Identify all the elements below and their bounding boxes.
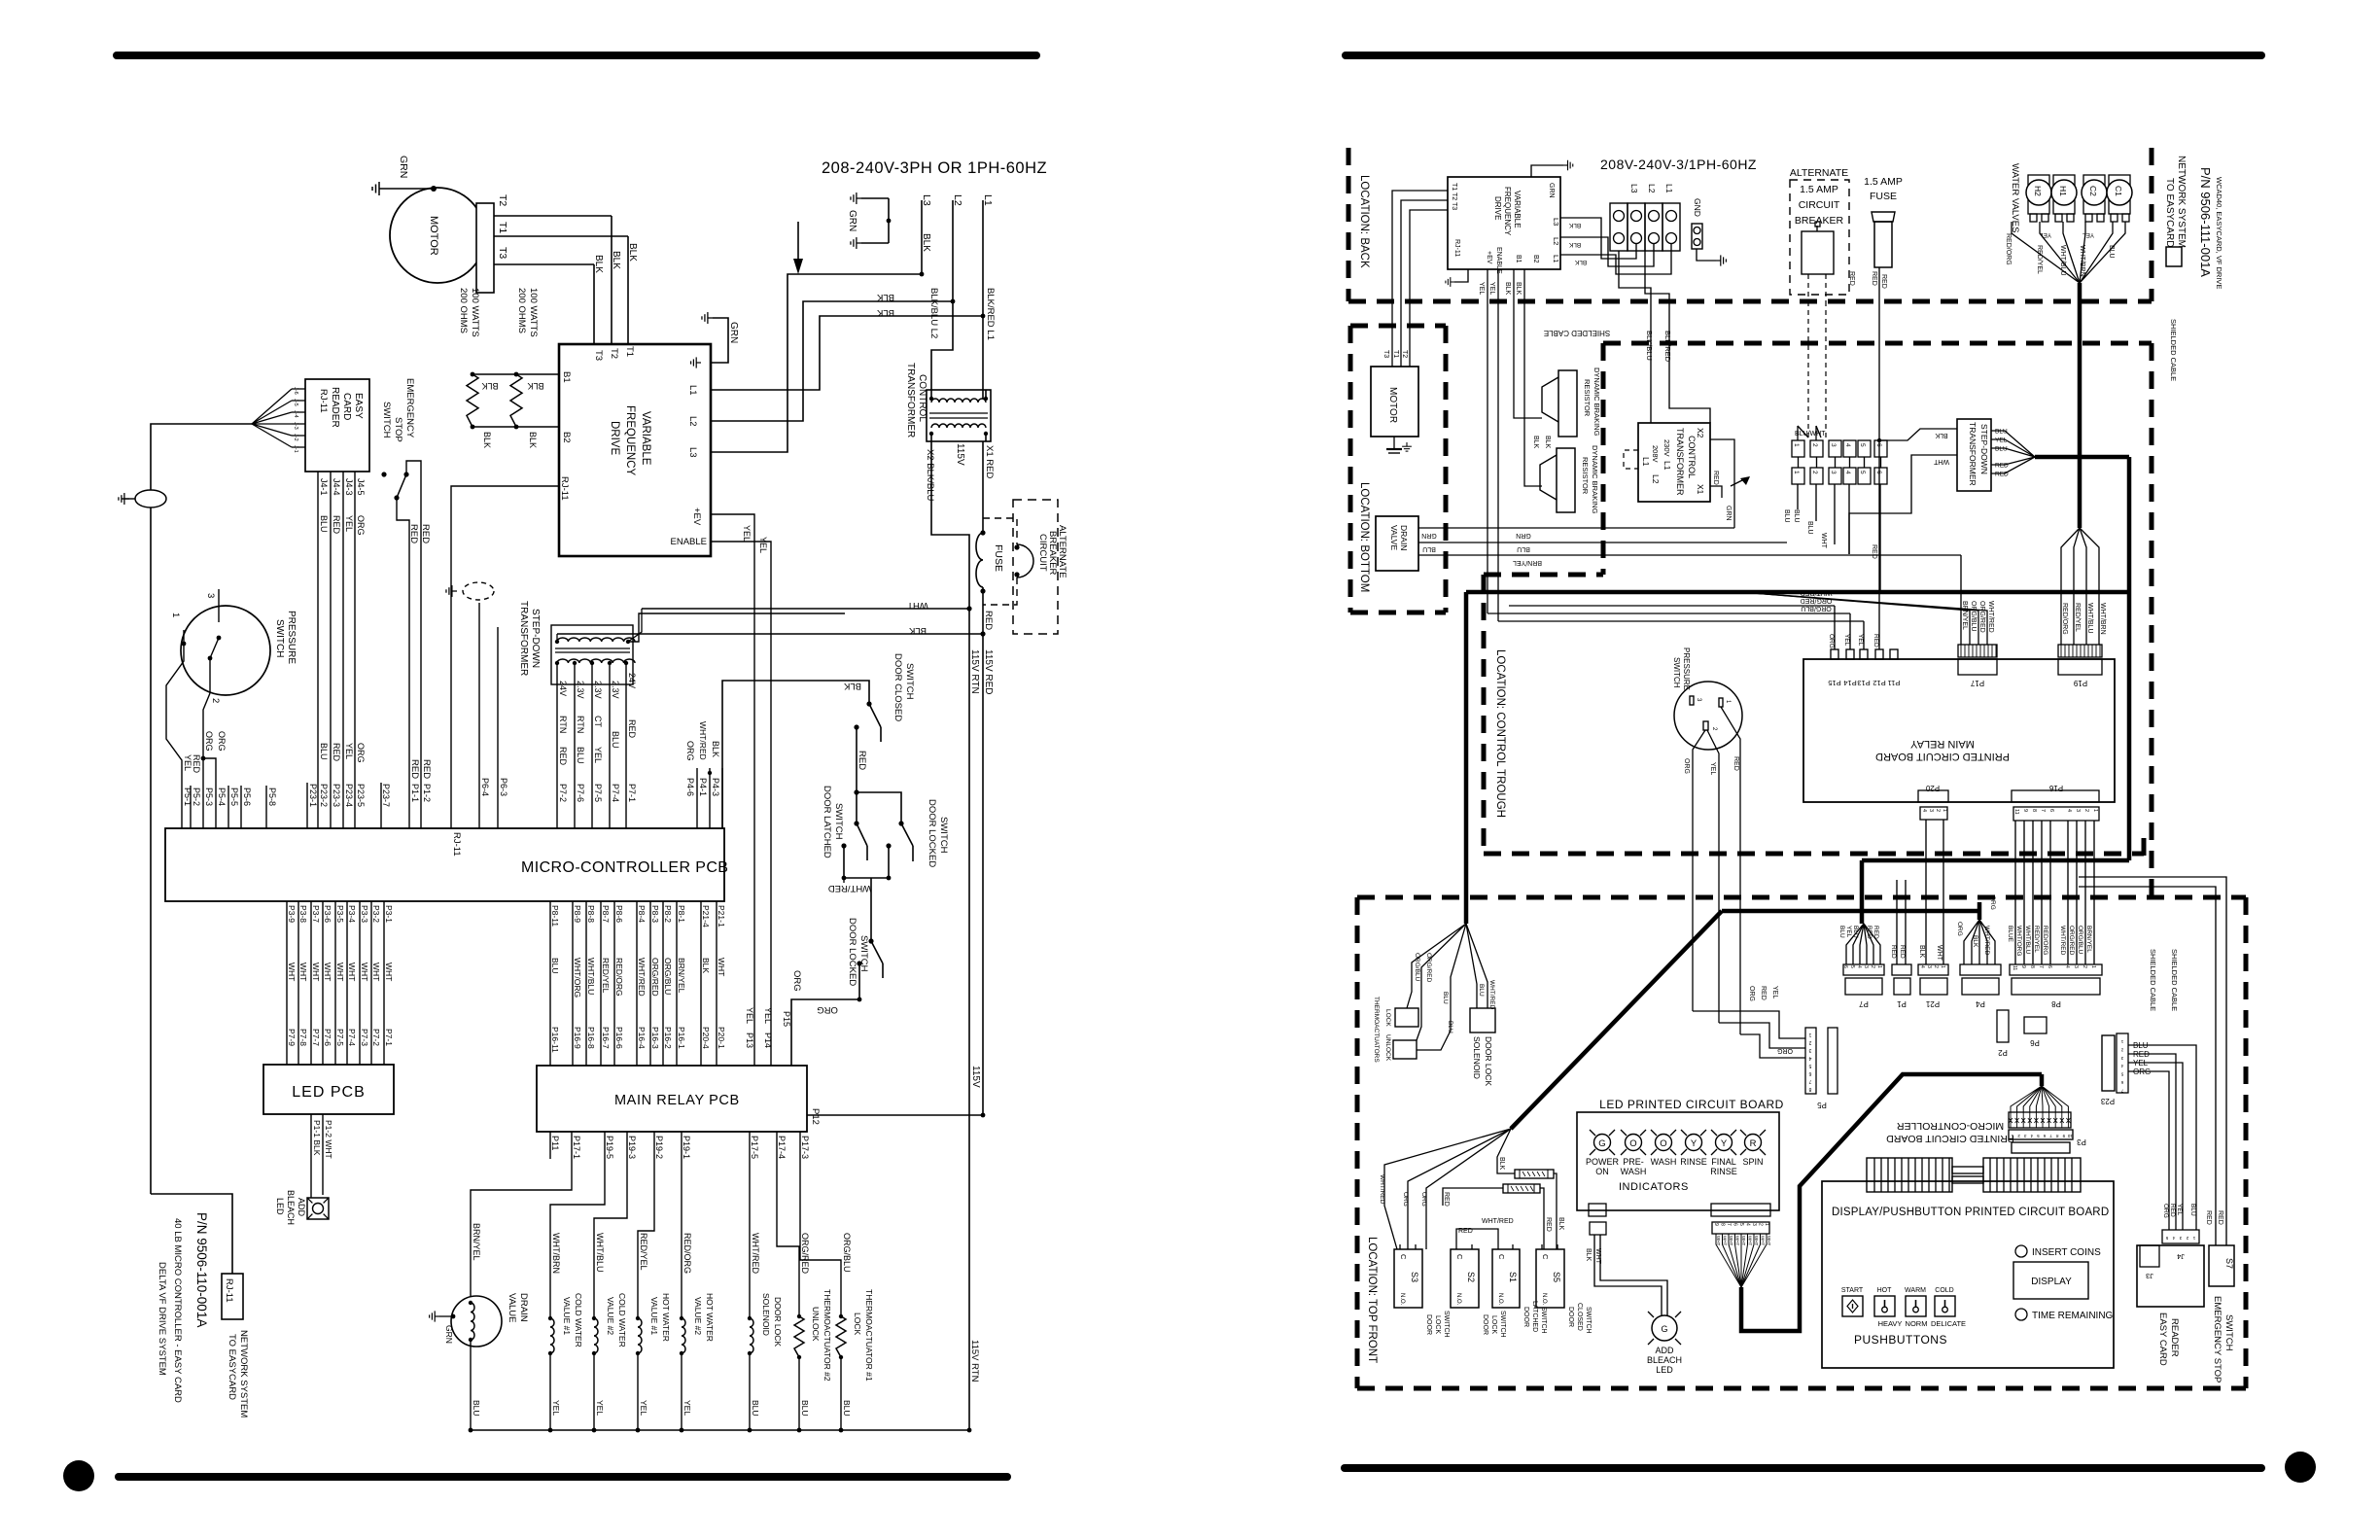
svg-text:SWITCH: SWITCH [2223, 1314, 2234, 1351]
svg-text:BLU: BLU [319, 743, 329, 760]
wire motor T1 to VFD [627, 236, 629, 344]
drain valve DV circle with coil [451, 1296, 502, 1347]
svg-text:BLK: BLK [921, 233, 931, 252]
svg-text:P3-2: P3-2 [371, 905, 381, 923]
svg-text:P23-1: P23-1 [308, 784, 318, 807]
braking resistor R-B2 [510, 374, 522, 427]
svg-text:P5-6: P5-6 [242, 787, 252, 806]
svg-text:LOCK: LOCK [1434, 1315, 1441, 1334]
display/pushbutton PCB box [1822, 1181, 2114, 1368]
svg-text:2: 2 [1870, 965, 1875, 968]
svg-text:RED: RED [1899, 945, 1906, 959]
svg-text:8: 8 [2031, 809, 2037, 812]
svg-text:YEL: YEL [1995, 437, 2008, 444]
valve connector P19R hatch [2058, 645, 2102, 657]
P21R connector [1918, 964, 1948, 975]
svg-text:5: 5 [1859, 471, 1866, 474]
breaker leads dashed down [1807, 274, 1809, 301]
motor lead T3 [494, 263, 594, 265]
svg-text:BLU: BLU [576, 747, 585, 764]
svg-text:UNLOCK: UNLOCK [811, 1307, 821, 1342]
svg-text:P8-6: P8-6 [614, 905, 624, 923]
svg-text:P11: P11 [1888, 679, 1901, 687]
svg-text:EASY: EASY [353, 393, 364, 419]
svg-text:3: 3 [1928, 809, 1934, 812]
svg-text:BLU: BLU [1478, 984, 1485, 997]
motor M1 circle [390, 188, 485, 283]
svg-text:BLK: BLK [527, 381, 543, 391]
svg-text:WHT: WHT [907, 600, 928, 611]
resistor bottom rail to B2 [472, 426, 560, 428]
RJ-11 wire from VFD [451, 486, 559, 828]
S2 S1 wires [1456, 1229, 1498, 1244]
svg-text:SOLENOID: SOLENOID [1472, 1036, 1482, 1079]
svg-text:EASY CARD: EASY CARD [2157, 1312, 2168, 1366]
svg-text:TRANSFORMER: TRANSFORMER [1968, 422, 1977, 486]
fuse F1 on X1 RED [982, 441, 984, 533]
svg-text:P5-3: P5-3 [204, 787, 214, 806]
svg-text:YEL: YEL [595, 1400, 605, 1416]
svg-text:C1: C1 [2114, 186, 2123, 196]
binder dot bottom-right [2285, 1452, 2316, 1483]
svg-text:SWITCH: SWITCH [1540, 1307, 1547, 1334]
svg-text:BLU: BLU [1838, 926, 1845, 938]
svg-text:P16-7: P16-7 [601, 1027, 611, 1049]
svg-text:L2: L2 [1651, 474, 1661, 484]
thick cable fan to P7R [1846, 924, 1864, 964]
svg-text:RED: RED [857, 751, 867, 770]
svg-text:BLU: BLU [1783, 509, 1790, 523]
water valve H2 [2028, 175, 2049, 214]
svg-text:3: 3 [1830, 471, 1837, 474]
primary wires to step-down [556, 634, 558, 642]
J4 wires from card reader to P23 [317, 472, 319, 828]
breaker dashed leads [983, 518, 1017, 544]
svg-text:ORG/BLU: ORG/BLU [1414, 953, 1420, 982]
svg-text:P16-9: P16-9 [573, 1027, 582, 1049]
svg-text:208V: 208V [1651, 445, 1660, 463]
svg-text:2: 2 [210, 698, 221, 703]
fan from thick cable to locks [1407, 924, 1466, 1008]
svg-text:4: 4 [1808, 1055, 1811, 1061]
switch wire fan from thick diagonal [1384, 1129, 1511, 1249]
svg-text:MAIN RELAY: MAIN RELAY [1909, 738, 1974, 750]
dynamic braking resistor DBR2 [1557, 448, 1575, 512]
svg-text:P16-8: P16-8 [586, 1027, 596, 1049]
svg-text:LED: LED [1656, 1365, 1673, 1375]
svg-text:RESISTOR: RESISTOR [1583, 379, 1592, 417]
thermoactuator unlock box [1393, 1040, 1417, 1059]
output P19-5 to cold water valve 1 [550, 1132, 605, 1318]
svg-text:BLK: BLK [1544, 436, 1551, 449]
svg-text:BLK: BLK [1515, 282, 1522, 296]
svg-text:YEL: YEL [682, 1400, 692, 1416]
svg-text:BREAKER: BREAKER [1047, 531, 1058, 576]
svg-text:P3-7: P3-7 [311, 905, 321, 923]
svg-text:P5-2: P5-2 [192, 787, 201, 806]
svg-text:READER: READER [330, 387, 340, 428]
svg-text:C: C [1541, 1254, 1550, 1260]
svg-text:LOCK: LOCK [853, 1312, 862, 1335]
svg-text:9: 9 [2020, 965, 2026, 968]
svg-text:YEL: YEL [2176, 1204, 2183, 1216]
svg-text:RINSE: RINSE [1710, 1167, 1737, 1176]
P4R fan and connector [1964, 920, 1979, 964]
svg-text:RED/ORG: RED/ORG [2005, 233, 2012, 265]
svg-text:DYNAMIC BRAKING: DYNAMIC BRAKING [1591, 445, 1599, 514]
control trough dashed border [1601, 343, 1606, 575]
svg-text:WHT: WHT [1716, 1236, 1721, 1245]
svg-text:10: 10 [2067, 1134, 2073, 1138]
svg-text:SWITCH: SWITCH [1672, 657, 1681, 688]
door closed switch S-DC [866, 701, 871, 706]
svg-text:P21: P21 [1925, 999, 1940, 1008]
svg-text:EMERGENCY STOP: EMERGENCY STOP [2212, 1296, 2222, 1382]
svg-text:RED: RED [1732, 756, 1739, 771]
svg-text:1: 1 [2092, 809, 2098, 812]
emergency stop switch S-ES [381, 472, 386, 476]
svg-text:MAIN RELAY PCB: MAIN RELAY PCB [614, 1093, 740, 1108]
svg-text:YEL: YEL [1843, 634, 1850, 647]
transformer X2 GRN wire [1710, 439, 1734, 528]
terminal strip links [1798, 457, 1800, 468]
svg-text:LOCK: LOCK [1490, 1315, 1497, 1334]
svg-text:O: O [1629, 1138, 1636, 1149]
svg-text:RED: RED [409, 759, 420, 779]
pad feed horizontals [1509, 605, 1835, 607]
svg-text:T1: T1 [624, 346, 635, 357]
breaker body [1802, 231, 1834, 274]
svg-text:CARD: CARD [341, 393, 352, 420]
svg-text:CONTROL: CONTROL [1687, 436, 1697, 478]
svg-text:P20-4: P20-4 [701, 1027, 711, 1049]
svg-text:P12: P12 [810, 1108, 821, 1125]
svg-text:WHT: WHT [384, 962, 394, 981]
svg-text:P16: P16 [2048, 784, 2063, 792]
svg-text:YEL: YEL [763, 1007, 773, 1024]
svg-text:P2: P2 [1998, 1048, 2008, 1057]
wire VFD L3 to supply [711, 274, 922, 452]
svg-text:STEP-DOWN: STEP-DOWN [1979, 424, 1989, 474]
svg-text:N.O.: N.O. [1541, 1293, 1547, 1306]
output P17-5 to door lock solenoid [749, 1132, 751, 1318]
svg-text:WASH: WASH [1651, 1157, 1677, 1167]
motor lead T1 [494, 235, 628, 237]
svg-text:ORG/BLU: ORG/BLU [1970, 601, 1977, 632]
svg-text:RED/ORG: RED/ORG [2042, 926, 2048, 955]
svg-text:ADD: ADD [1655, 1346, 1674, 1355]
svg-text:GRN: GRN [398, 156, 409, 178]
terminal strip row lower 1-6 [1792, 468, 1804, 484]
svg-text:CIRCUIT: CIRCUIT [1037, 534, 1048, 572]
shield ferrite symbol on network wire [135, 490, 166, 507]
svg-text:MICRO-CONTROLLER: MICRO-CONTROLLER [1896, 1120, 2004, 1132]
transformer dashed stub [1624, 450, 1638, 469]
svg-text:PRESSURE: PRESSURE [1682, 647, 1691, 690]
svg-text:3: 3 [1751, 1223, 1757, 1226]
svg-text:P23-3: P23-3 [332, 784, 341, 807]
svg-text:BLEACH: BLEACH [1647, 1355, 1682, 1365]
svg-text:SWITCH: SWITCH [1443, 1311, 1450, 1338]
step-down right fan BLU YEL BLU RED RED [1991, 431, 2035, 457]
svg-text:TRANSFORMER: TRANSFORMER [1675, 428, 1685, 496]
LED pcb right connector [1711, 1204, 1770, 1216]
emergency stop switch S7 [2209, 1245, 2234, 1286]
svg-text:PUSHBUTTONS: PUSHBUTTONS [1854, 1333, 1947, 1347]
svg-text:P4-6: P4-6 [685, 778, 695, 796]
svg-text:J4-3: J4-3 [344, 478, 354, 496]
svg-text:P7-6: P7-6 [576, 784, 585, 802]
svg-text:1: 1 [2090, 965, 2096, 968]
svg-text:BLK: BLK [593, 255, 604, 273]
svg-text:100 WATTS: 100 WATTS [528, 288, 539, 337]
svg-text:FUSE: FUSE [993, 544, 1004, 572]
wires YEL YEL BLK BLK from VFD bottom [1487, 269, 1488, 613]
svg-text:ORG/RED: ORG/RED [800, 1233, 810, 1275]
page top rule right sheet [1346, 52, 2261, 59]
svg-text:6: 6 [2048, 809, 2054, 812]
svg-text:WHT/RED: WHT/RED [698, 721, 708, 760]
svg-text:BLU: BLU [1422, 545, 1436, 552]
svg-text:BLU: BLU [1995, 446, 2008, 453]
svg-text:BLU: BLU [1442, 992, 1449, 1004]
add bleach LED DS1 [307, 1198, 329, 1219]
svg-text:DRIVE: DRIVE [1493, 196, 1502, 220]
svg-text:2: 2 [1935, 809, 1941, 812]
svg-text:YEL: YEL [1845, 926, 1852, 938]
secondary tap wires to P7 [556, 663, 558, 828]
svg-text:START: START [1841, 1287, 1864, 1294]
svg-text:THERMOACTUATOR #1: THERMOACTUATOR #1 [864, 1289, 874, 1382]
wire motor T2 to VFD [611, 216, 612, 344]
water valve C2 [2083, 175, 2105, 214]
svg-text:RJ-11: RJ-11 [559, 476, 570, 501]
micro to main relay wire columns P8/P21 [549, 901, 551, 1066]
svg-text:WHT: WHT [1767, 1236, 1771, 1245]
easycard network cable RED pair [2079, 877, 2226, 1245]
svg-text:COLD WATER: COLD WATER [617, 1293, 627, 1347]
svg-text:P11: P11 [550, 1136, 560, 1150]
svg-text:1.5 AMP: 1.5 AMP [1864, 176, 1903, 188]
main relay PCB A3R box [1803, 659, 2115, 802]
svg-text:BLK: BLK [1568, 241, 1581, 248]
svg-text:+EV: +EV [691, 507, 702, 526]
svg-text:STEP-DOWN: STEP-DOWN [530, 609, 541, 668]
svg-text:J-3: J-3 [293, 422, 298, 430]
connector P17R hatch [1958, 645, 1997, 657]
step-down left leads BLK WHT [1879, 429, 1957, 440]
svg-text:WHT: WHT [1820, 533, 1827, 549]
svg-text:BLK/RED L1: BLK/RED L1 [985, 288, 996, 340]
svg-text:C: C [1399, 1254, 1408, 1260]
svg-text:BLK/RED: BLK/RED [1663, 331, 1672, 363]
svg-text:BLK/BLU L2: BLK/BLU L2 [928, 288, 939, 338]
svg-text:YEL: YEL [639, 1400, 648, 1416]
door locked switch S-DL1 branch [857, 792, 901, 823]
svg-text:DOOR LATCHED: DOOR LATCHED [822, 786, 832, 858]
svg-text:SWITCH: SWITCH [1585, 1307, 1592, 1334]
svg-text:ADD: ADD [297, 1198, 306, 1217]
svg-text:BLK: BLK [843, 681, 861, 691]
svg-text:B1: B1 [1515, 255, 1522, 263]
GND wire and ground [1697, 249, 1716, 261]
svg-text:2: 2 [1758, 1223, 1764, 1226]
svg-text:L3: L3 [687, 447, 698, 458]
svg-text:B2: B2 [1532, 255, 1539, 263]
svg-text:2: 2 [1933, 965, 1939, 968]
svg-text:WHT/RED: WHT/RED [1987, 601, 1994, 633]
svg-text:GRN: GRN [1516, 532, 1531, 539]
svg-text:SHIELDED CABLE: SHIELDED CABLE [2170, 949, 2179, 1011]
svg-text:RJ-11: RJ-11 [1453, 239, 1460, 257]
svg-text:P15: P15 [782, 1011, 791, 1027]
svg-text:COLD: COLD [1935, 1287, 1953, 1294]
svg-text:P20-1: P20-1 [717, 1027, 726, 1049]
fuse lead RED down [1878, 267, 1880, 649]
water valve C1 [2109, 175, 2130, 214]
svg-text:DYNAMIC BRAKING: DYNAMIC BRAKING [1592, 367, 1601, 437]
svg-text:J-4: J-4 [293, 410, 298, 418]
svg-text:RED: RED [332, 515, 341, 535]
svg-text:LOCK: LOCK [1384, 1009, 1391, 1027]
svg-text:RINSE: RINSE [1680, 1157, 1707, 1167]
115V RED line down to P12 [982, 634, 984, 1115]
svg-text:INSERT COINS: INSERT COINS [2032, 1247, 2101, 1258]
svg-text:WHT/RED: WHT/RED [2059, 926, 2066, 956]
svg-text:VALUE #1: VALUE #1 [649, 1297, 659, 1335]
P5 column stubs [190, 786, 192, 828]
svg-text:HOT: HOT [1877, 1287, 1893, 1294]
svg-text:BLK: BLK [482, 432, 492, 448]
svg-text:115V: 115V [970, 1066, 981, 1088]
thick cable junction from step-down [2035, 455, 2129, 460]
svg-text:40 LB MICRO CONTROLLER - EASY: 40 LB MICRO CONTROLLER - EASY CARD [172, 1218, 183, 1403]
drain valve wires GRN BLU BRN/YEL [1418, 527, 1734, 529]
second dashed separator [1603, 341, 2152, 346]
svg-text:P8-4: P8-4 [637, 905, 647, 923]
svg-text:YEL: YEL [551, 1400, 561, 1416]
easy card reader connector fan [252, 389, 292, 424]
svg-text:T3: T3 [497, 247, 508, 259]
svg-text:200 OHMS: 200 OHMS [458, 288, 469, 333]
svg-text:P14: P14 [1843, 679, 1856, 687]
svg-text:J4-5: J4-5 [356, 478, 366, 496]
svg-text:230V: 230V [1662, 439, 1671, 457]
svg-text:P7: P7 [1859, 999, 1869, 1008]
water valve H1 [2053, 175, 2075, 214]
P3 lower box [2012, 1142, 2070, 1153]
svg-text:208V-240V-3/1PH-60HZ: 208V-240V-3/1PH-60HZ [1600, 157, 1757, 172]
svg-text:ORG/BLU: ORG/BLU [842, 1233, 852, 1273]
svg-text:BLU: BLU [319, 515, 329, 533]
svg-text:P23-5: P23-5 [356, 784, 366, 807]
location back bottom dashed [1348, 299, 2152, 304]
wire BLK horizontal [557, 633, 983, 635]
coil bottom leads [470, 1340, 472, 1430]
svg-text:P8-3: P8-3 [650, 905, 660, 923]
svg-text:RED: RED [420, 524, 431, 543]
svg-text:PRE-: PRE- [1623, 1157, 1644, 1167]
svg-text:RJ-11: RJ-11 [224, 1278, 234, 1303]
drain valve ground GRN [451, 1314, 456, 1319]
svg-text:J4-1: J4-1 [319, 478, 329, 496]
svg-text:RED/ORG: RED/ORG [2061, 603, 2068, 635]
svg-text:P16-4: P16-4 [637, 1027, 647, 1049]
svg-text:DRAIN: DRAIN [518, 1293, 529, 1322]
svg-text:ORG: ORG [1683, 758, 1690, 774]
easy card reader A2 box [305, 379, 369, 472]
svg-text:RED: RED [1848, 271, 1855, 286]
svg-text:P19-2: P19-2 [654, 1136, 664, 1159]
svg-text:WHT/RED: WHT/RED [637, 958, 647, 997]
svg-text:N.O.: N.O. [1497, 1293, 1503, 1306]
svg-text:DELICATE: DELICATE [1931, 1319, 1966, 1328]
svg-text:6: 6 [1808, 1070, 1811, 1076]
step-down transformer windings [557, 638, 635, 642]
step-down transformer T2R box [1957, 419, 1991, 491]
pressure switch terminal 3 [218, 589, 220, 622]
strip output wires BLU BLU BLU WHT RED [1797, 484, 1799, 509]
P5R connector strips [1805, 1028, 1816, 1094]
GND terminal [1692, 224, 1702, 249]
VFD ground wire GRN to right [711, 318, 728, 363]
svg-text:P6-4: P6-4 [480, 778, 490, 796]
pressure switch terminal 1 [183, 630, 185, 644]
svg-text:BLK/BLU: BLK/BLU [1645, 331, 1654, 361]
svg-text:BLK: BLK [1935, 432, 1948, 438]
resistor top rail to B1 [472, 373, 560, 375]
wires VFD +EV ENABLE to P13 P14 [711, 514, 754, 1066]
svg-text:9: 9 [2022, 809, 2028, 812]
drain valve box right sheet [1376, 516, 1418, 571]
svg-text:INDICATORS: INDICATORS [1619, 1181, 1689, 1193]
svg-text:WHT: WHT [1729, 1236, 1733, 1245]
svg-text:RED: RED [1760, 986, 1767, 1000]
svg-text:ORG/RED: ORG/RED [1425, 953, 1432, 983]
svg-text:P7-2: P7-2 [558, 784, 568, 802]
svg-text:J-2: J-2 [293, 434, 298, 441]
door lock solenoid box [1470, 1008, 1495, 1032]
svg-text:J-1: J-1 [293, 445, 298, 453]
svg-text:L1: L1 [687, 385, 698, 396]
svg-text:P8-9: P8-9 [573, 905, 582, 923]
svg-text:1: 1 [1942, 809, 1947, 812]
P3 connector fan [2011, 1086, 2042, 1112]
svg-text:ENABLE: ENABLE [671, 537, 708, 547]
thermoactuator lock box [1395, 1008, 1418, 1027]
svg-text:WHT: WHT [1748, 1236, 1753, 1245]
svg-text:WHT: WHT [298, 962, 308, 981]
svg-text:1: 1 [1940, 965, 1945, 968]
svg-text:LATCHED: LATCHED [1531, 1301, 1538, 1332]
svg-text:P17: P17 [1970, 679, 1984, 687]
svg-text:4: 4 [1921, 809, 1927, 812]
LED PCB wire columns P3/P7 [286, 901, 288, 1065]
svg-text:100 WATTS: 100 WATTS [470, 288, 480, 337]
svg-text:24V: 24V [627, 673, 637, 688]
svg-text:WHT/BLU: WHT/BLU [586, 958, 596, 995]
thermoactuator #1 resistor [836, 1316, 846, 1357]
braking resistor R-B1 [467, 374, 478, 427]
svg-text:TO EASYCARD: TO EASYCARD [227, 1334, 237, 1400]
svg-text:POWER: POWER [1586, 1157, 1620, 1167]
svg-text:BLK: BLK [701, 958, 711, 973]
svg-text:FUSE: FUSE [1870, 191, 1897, 202]
svg-text:P8-1: P8-1 [677, 905, 686, 923]
terminal strip row upper 1-6 [1792, 440, 1804, 457]
P3 hatch strip [2009, 1112, 2071, 1128]
P7R connector [1843, 964, 1884, 975]
